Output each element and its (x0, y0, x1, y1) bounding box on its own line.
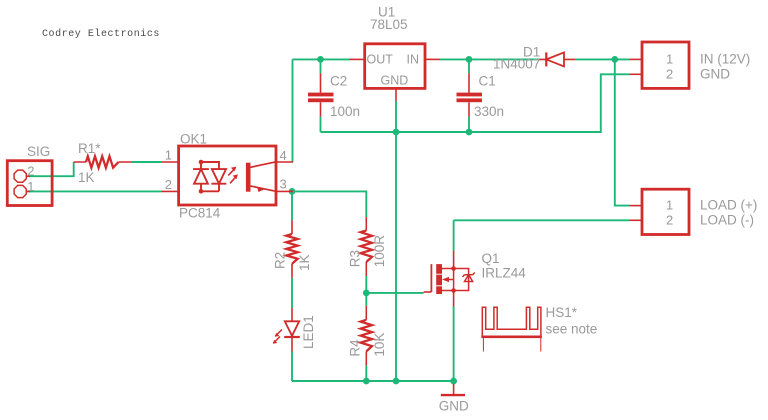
svg-text:78L05: 78L05 (370, 17, 408, 32)
wire U1 GND vertical down to bottom rail (395, 101, 397, 381)
resistor R2 body (286, 234, 297, 264)
wire OK1 pin3 right to R3 (292, 191, 366, 217)
svg-text:IRLZ44: IRLZ44 (482, 266, 527, 281)
svg-text:OK1: OK1 (180, 132, 207, 147)
Q1 body diode triangle (465, 275, 473, 282)
svg-text:1: 1 (666, 52, 673, 67)
Q1 gate electrode (430, 264, 432, 292)
svg-text:1: 1 (666, 198, 673, 213)
OK1 pin 4 stub (276, 161, 293, 163)
capacitor C2 top pin (320, 73, 322, 92)
wire SIG pin2 to R1 (29, 162, 74, 176)
LED1 top lead (291, 308, 293, 321)
LED1 light arrow 2 head (273, 340, 278, 344)
OK1 pin 2 stub (162, 190, 179, 192)
svg-text:2: 2 (165, 177, 172, 192)
Q1 source node dot (451, 288, 456, 293)
Q1 body to source tie (453, 269, 455, 291)
svg-text:PC814: PC814 (179, 206, 221, 221)
wire D1 cathode to IN connector pin1 (575, 58, 630, 60)
svg-text:2: 2 (666, 213, 673, 228)
connector IN pin 2 stub (630, 73, 643, 75)
junction OK1 pin3 node (289, 188, 296, 195)
svg-text:R1*: R1* (78, 141, 101, 156)
svg-text:3: 3 (280, 176, 287, 191)
junction +12V branch (611, 56, 618, 63)
wire C1 top lead (468, 59, 470, 73)
transistor Q1 gate stub (424, 291, 432, 293)
svg-text:IN (12V): IN (12V) (700, 52, 750, 67)
op-to-coupler OK1 body (179, 146, 276, 205)
OK1 photon arrow 1 head (231, 167, 236, 172)
junction C1/IN rail (466, 56, 473, 63)
svg-text:2: 2 (27, 164, 34, 179)
LED1 light arrow 2 (274, 337, 281, 344)
Q1 source connection (442, 291, 454, 307)
OK1 pin 1 stub (162, 161, 179, 163)
wire C2 top lead (320, 59, 322, 73)
OK1 LED column bottom dot (199, 189, 204, 194)
resistor R1 body (86, 156, 119, 167)
connector SIG body (7, 161, 52, 206)
LED1 light arrow 1 (276, 330, 283, 337)
OK1 emitter arrow head (257, 187, 264, 192)
OK1 LED pair bottom rail (201, 184, 219, 192)
diode D1 stubs (540, 58, 576, 60)
Q1 body arrow head (442, 277, 449, 282)
LED1 triangle (285, 321, 299, 336)
Q1 drain node dot (451, 266, 456, 271)
svg-text:100R: 100R (372, 235, 387, 268)
OK1 diode down cathode bar (211, 183, 226, 185)
connector LOAD pin 1 stub (630, 205, 643, 207)
connector LOAD pin 2 stub (629, 219, 642, 221)
wire C2 bottom lead (320, 117, 322, 132)
resistor R4 leads (365, 306, 367, 366)
junction U1-GND line / GND rail (393, 378, 400, 385)
junction C2/+5V rail (317, 56, 324, 63)
IC U1 78L05 body (365, 44, 425, 89)
wire R3 to node (365, 276, 367, 293)
junction C1 / mid rail (466, 129, 473, 136)
Q1 drain connection (442, 251, 454, 269)
connector SIG pin 2 stub (27, 175, 30, 177)
svg-text:1: 1 (165, 148, 172, 163)
Q1 body line (444, 279, 454, 281)
svg-text:4: 4 (280, 148, 287, 163)
junction Q1 source / GND rail (450, 378, 457, 385)
diode D1 cathode bar (545, 52, 547, 66)
capacitor C1 bottom pin (468, 102, 470, 116)
svg-text:SIG: SIG (27, 144, 50, 159)
svg-text:IN: IN (407, 53, 420, 67)
wire +5V vertical to OK1 pin4 (292, 59, 294, 162)
OK1 diode up cathode bar (193, 168, 209, 170)
svg-text:1N4007: 1N4007 (493, 57, 540, 72)
connector SIG pin 1 pad (14, 185, 26, 197)
LED1 bottom lead (291, 337, 293, 352)
capacitor C1 plates (457, 93, 483, 97)
OK1 photon arrow 1 (228, 170, 233, 176)
junction U1 GND / mid rail (393, 129, 400, 136)
wire GND symbol lead (453, 381, 455, 385)
capacitor C2 bottom pin (320, 102, 322, 116)
Q1 channel segments (436, 264, 442, 274)
OK1 photon arrow 2 head (233, 174, 238, 179)
svg-text:HS1*: HS1* (546, 305, 578, 320)
U1 IN pin stub (425, 58, 440, 60)
svg-text:330n: 330n (474, 104, 504, 119)
junction R4 / GND rail (363, 378, 370, 385)
wire SIG pin1 to OK1 pin2 (29, 190, 162, 192)
heatsink HS1 base bar (481, 335, 542, 338)
Q1 body diode bar (463, 273, 475, 277)
LED1 light arrow 1 head (275, 333, 280, 337)
svg-text:see note: see note (546, 322, 598, 337)
connector SIG pin 1 stub (27, 191, 30, 193)
svg-text:1K: 1K (297, 254, 312, 271)
wire Q1 source down (453, 307, 455, 382)
wire R4 to bottom rail (365, 365, 367, 381)
heatsink HS1 fins (482, 307, 541, 336)
heatsink HS1 legs (483, 338, 540, 351)
connector LOAD body (642, 189, 689, 234)
capacitor C2 plates (308, 93, 334, 97)
svg-text:1: 1 (27, 179, 34, 194)
wire mid GND rail to IN connector pin2 (321, 74, 630, 132)
wire gate node to Q1 (366, 292, 423, 294)
OK1 emitter line (251, 186, 277, 191)
svg-text:C2: C2 (330, 74, 347, 89)
svg-text:GND: GND (439, 398, 469, 413)
connector SIG pin 2 pad (14, 170, 26, 182)
OK1 diode down triangle (212, 169, 226, 184)
resistor R3 body (361, 231, 372, 263)
svg-text:R2: R2 (273, 252, 288, 269)
ground symbol lead (453, 384, 455, 394)
OK1 LED pair top rail (201, 162, 219, 169)
svg-text:R4: R4 (347, 339, 362, 357)
svg-text:GND: GND (381, 74, 409, 88)
svg-text:R3: R3 (347, 250, 362, 267)
connector IN pin 1 stub (630, 58, 643, 60)
svg-text:100n: 100n (330, 104, 360, 119)
svg-text:10K: 10K (372, 333, 387, 357)
resistor R4 body (361, 320, 372, 352)
LED1 cathode bar (284, 336, 300, 338)
svg-text:LOAD (-): LOAD (-) (700, 213, 754, 228)
wire LED1 to bottom rail (291, 352, 293, 382)
wire Q1 drain vertical (453, 220, 455, 250)
wire bottom GND rail (292, 380, 454, 382)
wire U1 IN to D1 anode rail (440, 58, 540, 60)
svg-text:LED1: LED1 (301, 315, 316, 349)
junction R3/R4 gate node (363, 290, 370, 297)
U1 GND pin stub (395, 88, 397, 101)
diode D1 triangle (546, 52, 564, 66)
resistor R2 leads (291, 220, 293, 278)
svg-text:OUT: OUT (367, 53, 394, 67)
wire node to R4 (365, 293, 367, 306)
svg-text:GND: GND (700, 67, 730, 82)
Q1 body diode loop (454, 269, 469, 291)
OK1 LED column top dot (199, 160, 204, 165)
resistor R3 leads (365, 217, 367, 276)
svg-text:1K: 1K (78, 170, 95, 185)
svg-text:C1: C1 (479, 74, 496, 89)
svg-text:Q1: Q1 (482, 251, 500, 266)
svg-text:2: 2 (666, 67, 673, 82)
wire +12V down to LOAD pin1 (615, 59, 630, 205)
OK1 LED pair left column (200, 162, 202, 191)
wire Q1 drain to LOAD pin2 (454, 219, 630, 221)
svg-text:LOAD (+): LOAD (+) (700, 198, 757, 213)
U1 OUT pin stub (349, 58, 365, 60)
OK1 pin 3 stub (276, 190, 293, 192)
wire R1 to OK1 pin1 (132, 161, 162, 163)
wire +12V top rail left segment (293, 58, 350, 60)
OK1 diode up triangle (194, 169, 208, 184)
OK1 photon arrow 2 (230, 178, 235, 184)
wire R2 to LED1 (291, 278, 293, 308)
capacitor C1 top pin (468, 73, 470, 92)
ground symbol bar (441, 394, 465, 396)
resistor R1 leads (74, 161, 132, 163)
connector IN body (642, 42, 689, 88)
svg-text:Codrey Electronics: Codrey Electronics (42, 28, 160, 40)
OK1 collector line (251, 162, 277, 168)
wire C1 bottom lead (468, 117, 470, 132)
wire OK1 pin3 down to R2 (291, 191, 293, 220)
OK1 phototransistor bar (246, 163, 251, 192)
